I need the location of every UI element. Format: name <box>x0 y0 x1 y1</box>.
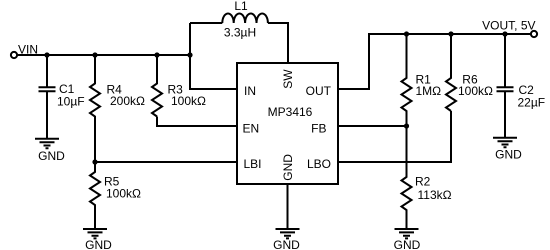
node junction rail-R6 <box>448 31 453 36</box>
svg-text:IN: IN <box>244 84 256 98</box>
capacitor C1 <box>39 55 56 138</box>
capacitor C2 <box>497 34 514 137</box>
svg-text:100kΩ: 100kΩ <box>171 94 206 108</box>
svg-text:R2: R2 <box>415 175 431 189</box>
node junction LBI-R5 <box>92 159 97 164</box>
ground R5 <box>83 229 107 238</box>
wire LBO to R6 <box>338 111 451 162</box>
resistor R3 <box>152 55 162 117</box>
wire LBI <box>95 161 237 163</box>
svg-text:OUT: OUT <box>306 84 332 98</box>
svg-text:GND: GND <box>281 154 295 181</box>
svg-text:LBI: LBI <box>244 157 262 171</box>
wire OUT to VOUT rail <box>338 34 531 89</box>
svg-text:L1: L1 <box>234 0 248 13</box>
resistor R4 <box>90 55 100 162</box>
svg-text:3.3µH: 3.3µH <box>224 26 256 40</box>
svg-text:SW: SW <box>281 69 295 89</box>
node junction FB-R2 <box>404 123 409 128</box>
svg-text:LBO: LBO <box>307 157 331 171</box>
wire L1 right leg to SW pin <box>268 23 288 63</box>
svg-text:10µF: 10µF <box>57 95 85 109</box>
svg-text:200kΩ: 200kΩ <box>110 94 145 108</box>
svg-text:FB: FB <box>311 122 326 136</box>
wire L1 left leg down to IN pin <box>190 23 237 89</box>
svg-text:EN: EN <box>243 122 260 136</box>
resistor R6 <box>446 34 456 111</box>
node junction VIN-R3 <box>154 52 159 57</box>
terminal VIN <box>11 52 17 58</box>
ground C1 <box>35 139 59 148</box>
node junction VIN-L1 <box>187 52 192 57</box>
svg-text:VIN: VIN <box>18 42 38 56</box>
svg-text:22µF: 22µF <box>518 95 546 109</box>
svg-text:GND: GND <box>85 238 112 250</box>
ground R2 <box>395 229 419 238</box>
wire FB <box>338 125 407 127</box>
terminal VOUT <box>531 31 537 37</box>
inductor L1 <box>222 13 268 23</box>
svg-text:GND: GND <box>394 238 421 250</box>
wire VIN rail <box>17 54 190 56</box>
resistor R5 <box>90 162 100 229</box>
svg-text:VOUT, 5V: VOUT, 5V <box>482 19 535 33</box>
svg-text:1MΩ: 1MΩ <box>416 84 442 98</box>
resistor R2 <box>402 126 412 229</box>
svg-text:113kΩ: 113kΩ <box>418 188 452 202</box>
svg-text:GND: GND <box>38 149 65 163</box>
svg-text:MP3416: MP3416 <box>268 105 313 119</box>
ground IC <box>276 229 300 238</box>
node junction rail-R1 <box>404 31 409 36</box>
node junction VIN-R4 <box>92 52 97 57</box>
node junction VIN-C1 <box>44 52 49 57</box>
resistor R1 <box>402 34 412 126</box>
svg-text:GND: GND <box>273 238 300 250</box>
svg-text:GND: GND <box>495 148 522 162</box>
wire R3 to EN pin <box>157 117 237 127</box>
svg-text:100kΩ: 100kΩ <box>458 84 493 98</box>
node junction rail-C2 <box>502 31 507 36</box>
ground C2 <box>493 138 517 147</box>
op-amp U1 MP3416 body <box>237 63 338 184</box>
wire GND pin stub <box>287 184 289 229</box>
wire L1 top left <box>190 22 222 24</box>
svg-text:100kΩ: 100kΩ <box>106 186 141 200</box>
